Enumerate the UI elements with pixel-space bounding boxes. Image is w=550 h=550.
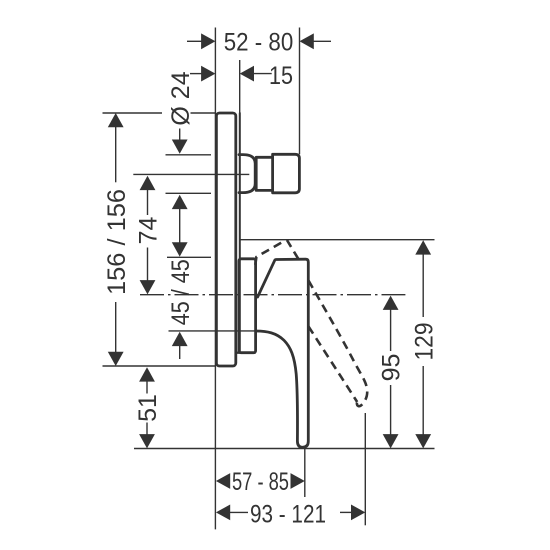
svg-text:156 / 156: 156 / 156 bbox=[103, 189, 131, 295]
svg-text:51: 51 bbox=[134, 394, 162, 422]
svg-text:129: 129 bbox=[410, 323, 438, 361]
svg-text:15: 15 bbox=[269, 62, 293, 90]
svg-text:Ø 24: Ø 24 bbox=[167, 71, 195, 125]
svg-text:52 - 80: 52 - 80 bbox=[224, 28, 294, 56]
svg-text:95: 95 bbox=[378, 354, 406, 382]
svg-text:57 - 85: 57 - 85 bbox=[232, 468, 289, 496]
svg-text:74: 74 bbox=[135, 217, 163, 245]
svg-text:93 - 121: 93 - 121 bbox=[250, 501, 326, 529]
svg-text:45 / 45: 45 / 45 bbox=[167, 259, 195, 325]
